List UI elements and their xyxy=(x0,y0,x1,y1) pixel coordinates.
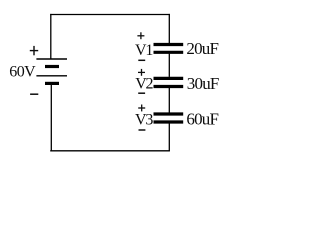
battery + label xyxy=(30,46,38,55)
wire C1 to C2 xyxy=(168,54,170,77)
svg-text:V1: V1 xyxy=(135,42,153,59)
svg-text:V3: V3 xyxy=(135,112,153,129)
wire right upper (top wire to C1) xyxy=(168,14,170,43)
node V2 - label xyxy=(138,92,145,94)
wire left lower (battery - plate to bottom wire) xyxy=(50,84,52,151)
svg-text:60V: 60V xyxy=(9,63,36,80)
node V3 - label xyxy=(139,129,146,131)
capacitor C3 60uF xyxy=(154,114,184,122)
svg-text:60uF: 60uF xyxy=(186,110,218,129)
node V3 + label xyxy=(138,105,145,112)
wire C2 to C3 xyxy=(168,88,170,113)
capacitor C2 30uF xyxy=(154,78,184,86)
wire left upper (top wire to battery + plate) xyxy=(50,14,52,59)
capacitor C1 20uF xyxy=(154,45,184,53)
battery - label xyxy=(30,93,38,95)
node V2 + label xyxy=(138,69,145,76)
svg-text:V2: V2 xyxy=(135,76,153,93)
wire bottom xyxy=(50,150,170,152)
svg-text:30uF: 30uF xyxy=(187,74,219,93)
wire right lower (C3 to bottom wire) xyxy=(168,123,170,151)
wire top xyxy=(50,14,170,16)
node V1 - label xyxy=(138,59,145,61)
node V1 + label xyxy=(137,32,144,39)
svg-text:20uF: 20uF xyxy=(186,39,218,58)
battery B1 60V xyxy=(36,59,67,83)
